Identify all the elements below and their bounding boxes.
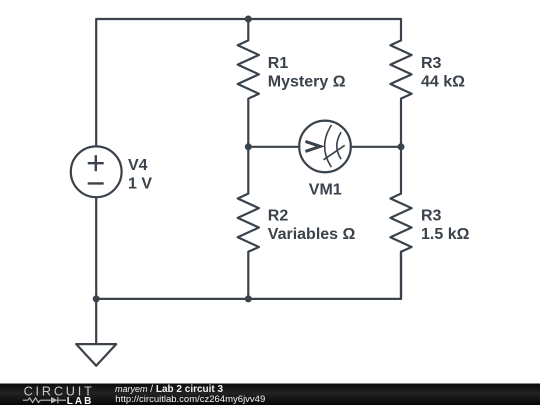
ground — [76, 344, 116, 366]
svg-text:R1: R1 — [268, 55, 289, 72]
logo wire right — [58, 399, 66, 401]
logo wire left — [23, 399, 28, 401]
voltage source V4 — [71, 146, 122, 197]
svg-text:V4: V4 — [128, 157, 148, 174]
wire ground stem — [95, 299, 97, 344]
svg-text:R3: R3 — [421, 207, 442, 224]
svg-text:R3: R3 — [421, 55, 442, 72]
resistor R2 — [238, 147, 259, 299]
voltmeter VM1 body — [299, 121, 351, 173]
voltmeter chevron — [305, 141, 320, 151]
wire top rail — [96, 19, 401, 146]
node bottom left — [93, 295, 100, 302]
wire bottom rail — [96, 252, 401, 299]
voltmeter arc right — [337, 132, 341, 159]
svg-text:1.5 kΩ: 1.5 kΩ — [421, 226, 470, 243]
svg-text:Mystery Ω: Mystery Ω — [268, 74, 346, 91]
svg-text:Variables Ω: Variables Ω — [268, 226, 356, 243]
wire voltmeter right — [351, 146, 401, 148]
wire voltmeter left — [248, 146, 299, 148]
logo wire mid — [40, 399, 51, 401]
resistor R3 top — [390, 40, 411, 146]
svg-text:LAB: LAB — [67, 396, 94, 405]
V4 minus sign — [88, 182, 104, 184]
resistor R1 — [238, 19, 259, 147]
wire left column lower — [95, 197, 97, 299]
svg-text:44 kΩ: 44 kΩ — [421, 74, 465, 91]
node mid right — [398, 143, 405, 150]
logo resistor squiggle — [28, 398, 41, 403]
V4 plus sign — [88, 155, 104, 183]
svg-text:http://circuitlab.com/cz264my6: http://circuitlab.com/cz264my6jvv49 — [115, 394, 265, 405]
node mid left — [245, 143, 252, 150]
voltmeter needle — [324, 145, 345, 160]
svg-text:R2: R2 — [268, 207, 289, 224]
svg-text:1 V: 1 V — [128, 175, 152, 192]
voltmeter arc left — [325, 125, 332, 167]
node top mid — [245, 16, 252, 23]
svg-text:VM1: VM1 — [309, 181, 342, 198]
resistor R3 bottom — [390, 147, 411, 299]
logo diode bar — [57, 397, 59, 403]
node bottom mid — [245, 295, 252, 302]
logo diode triangle — [51, 397, 58, 404]
